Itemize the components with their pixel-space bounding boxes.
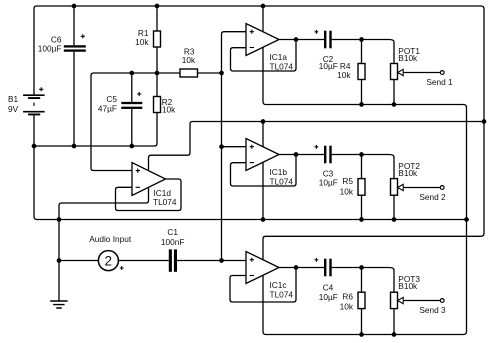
resistor R4 10k [358,64,365,80]
junction IC1c output [294,265,299,270]
wire POT2 bottom stub [393,195,395,219]
junction V+ line IC1b stub [261,119,266,124]
svg-text:TL074: TL074 [270,289,294,299]
wire C6 branch +9V to 0V [73,6,75,146]
junction VB rail bus [219,71,224,76]
svg-text:B10k: B10k [398,168,418,178]
junction IC1b output [294,152,299,157]
junction rail1 POT1 [392,102,397,107]
junction V+ line right vertical [482,119,487,124]
svg-text:10k: 10k [162,104,176,114]
wire section1 0V rail [266,105,467,108]
junction rail3 POT3 [392,332,397,337]
junction IC1a output [294,37,299,42]
junction +9V rail R1 [155,4,160,9]
resistor R1 10k [154,31,161,47]
junction ground rail IC1d V- [57,217,62,222]
svg-text:10k: 10k [182,55,196,65]
svg-text:C1: C1 [167,227,178,237]
junction audio line ground stub [57,258,62,263]
junction +9V rail C6 [72,4,77,9]
junction 0V rail C6 [72,144,77,149]
wire IC1c feedback loop [230,268,296,303]
junction C4 R6 [359,265,364,270]
wire IC1a V+ stub [262,6,264,32]
op-amp IC1b [246,139,279,171]
wire audio input line to IC1c non-inverting input [59,260,246,262]
junction C2 R4 [359,37,364,42]
svg-text:10k: 10k [135,37,149,47]
wire R2 top stub [156,73,158,97]
junction 0V rail C5 [129,144,134,149]
wire R5 stubs [361,155,363,220]
wire R1 branch [156,6,158,73]
svg-text:100µF: 100µF [38,44,62,54]
battery B1 polarity plus [39,87,43,91]
wire IC1b feedback loop [231,155,297,187]
junction ground rail POT2 [392,217,397,222]
junction VB rail C5 [129,71,134,76]
wire ground stub with audio tap [58,220,60,301]
op-amp IC1d feedback loop output to inverting input [116,179,182,211]
capacitor C3 10uF [324,146,332,164]
junction ground rail R5 [359,217,364,222]
svg-text:Audio Input: Audio Input [89,234,132,244]
svg-text:10k: 10k [340,301,354,311]
wire VB rail R1 R2 junction with R3 [94,72,222,74]
svg-text:10µF: 10µF [319,177,338,187]
svg-text:B1: B1 [8,94,19,104]
potentiometer POT2 B10k [391,179,398,196]
op-amp IC1d [132,163,166,196]
svg-text:47µF: 47µF [98,104,117,114]
potentiometer POT2 wiper arrow to Send 2 terminal [398,184,444,190]
svg-text:100nF: 100nF [161,237,185,247]
wire IC1b output to C3 [279,154,324,156]
capacitor C6 polarity plus [81,34,85,38]
junction rail1 R4 [359,102,364,107]
potentiometer POT1 B10k [391,64,398,80]
svg-text:TL074: TL074 [270,61,294,71]
svg-text:10k: 10k [337,70,351,80]
svg-text:Send 3: Send 3 [419,305,446,315]
wire POT1 bottom stub [393,80,395,105]
svg-text:Send 1: Send 1 [426,77,453,87]
wire IC1a feedback loop output to inverting input [231,40,297,72]
wire C2 to R4 POT1 [332,40,394,64]
capacitor C6 100uF [64,45,86,52]
potentiometer POT3 wiper arrow to Send 3 terminal [398,297,444,303]
wire R6 stubs [361,268,363,335]
resistor R5 10k [358,179,365,196]
svg-text:R5: R5 [342,176,353,186]
resistor R6 10k [358,292,365,308]
svg-text:9V: 9V [8,104,19,114]
capacitor C2 polarity plus [315,30,319,34]
potentiometer POT1 wiper arrow to Send 1 terminal [398,69,444,75]
svg-text:B10k: B10k [398,281,418,291]
capacitor C4 10uF [324,259,332,277]
junction bus IC1b input [219,144,224,149]
resistor R2 10k [154,97,161,113]
svg-text:10k: 10k [340,186,354,196]
wire section3 0V rail [266,332,467,335]
wire battery negative down to 0V rail along bottom [34,115,467,220]
wire IC1a output to C2 [279,39,324,41]
svg-text:TL074: TL074 [153,197,177,207]
wire IC1c V- stub to section rail [263,275,266,334]
capacitor C3 polarity plus [315,145,319,149]
svg-text:R6: R6 [342,291,353,301]
junction rail3 R6 [359,332,364,337]
wire C3 to R5 POT2 [332,155,394,179]
resistor R3 10k [180,69,198,77]
audio input jack connector pin 2 [98,251,118,271]
capacitor C1 100nF [169,249,177,271]
capacitor C4 polarity plus [315,258,319,262]
junction 0V rail battery [32,144,37,149]
wire C4 to R6 POT3 [332,268,394,293]
junction +9V rail IC1a V+ [261,4,266,9]
svg-text:Send 2: Send 2 [419,192,446,202]
svg-text:2: 2 [104,254,112,269]
wire C5 branch VB to 0V [131,73,133,146]
junction ground rail right vertical [464,217,469,222]
capacitor C5 polarity plus [137,92,141,96]
wire right side 0V vertical [466,108,468,332]
junction C3 R5 [359,152,364,157]
wire IC1b V+ stub [262,122,264,147]
svg-text:10µF: 10µF [319,61,338,71]
wire non-inverting input bus [222,32,247,261]
op-amp IC1c [246,252,279,284]
svg-text:B10k: B10k [398,53,418,63]
wire bus to IC1b non-inverting input [222,146,247,148]
svg-text:TL074: TL074 [270,176,294,186]
wire 0V rail to R2 bottom [34,113,157,147]
svg-text:10µF: 10µF [319,292,338,302]
battery B1 [23,95,44,115]
junction ground rail IC1b V- [261,217,266,222]
wire R4 stubs [361,40,363,105]
capacitor C5 47uF [121,102,142,109]
capacitor C2 10uF [324,31,332,49]
wire IC1d V+ pin route to V+ line [149,122,485,171]
wire POT3 bottom stub [393,309,395,335]
junction VB rail R1 R2 [155,71,160,76]
wire +9V rail from battery positive along top, down right side to IC1c V+ pin [34,6,484,260]
wire IC1c output to C4 [279,267,324,269]
wire IC1b V- stub [262,162,264,219]
junction audio line bus [219,258,224,263]
ground symbol [50,301,67,308]
wire IC1a V- stub to section rail [263,47,266,104]
wire VB tap down to IC1d non-inverting input [91,73,132,171]
op-amp IC1a [246,24,279,56]
audio input jack polarity plus [120,266,124,270]
potentiometer POT3 B10k [391,292,398,308]
wire IC1d V- pin route to ground junction [59,188,149,220]
